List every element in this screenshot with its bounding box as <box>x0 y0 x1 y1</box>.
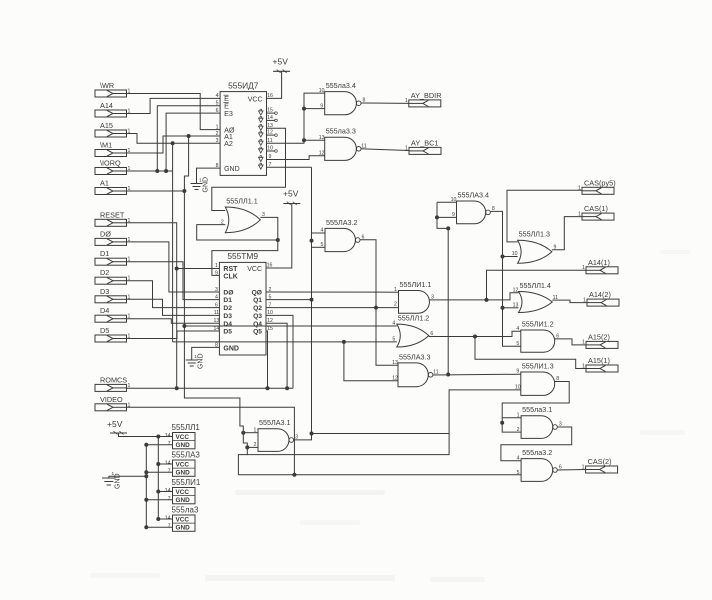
svg-text:VCC: VCC <box>176 434 190 441</box>
svg-text:555ЛА3.4: 555ЛА3.4 <box>458 190 490 199</box>
svg-text:555ла3.1: 555ла3.1 <box>522 405 552 414</box>
svg-text:555ТМ9: 555ТМ9 <box>227 251 258 261</box>
svg-text:GND: GND <box>224 166 240 173</box>
svg-text:GND: GND <box>203 177 210 193</box>
svg-text:D2: D2 <box>223 305 232 312</box>
svg-text:555ла3: 555ла3 <box>172 506 199 515</box>
svg-text:E3: E3 <box>224 109 233 118</box>
svg-text:D3: D3 <box>223 313 232 320</box>
svg-text:D2: D2 <box>100 268 109 277</box>
svg-text:555ла3.2: 555ла3.2 <box>522 448 552 457</box>
svg-text:D1: D1 <box>223 297 232 304</box>
svg-text:555ла3.4: 555ла3.4 <box>326 81 356 90</box>
svg-text:A14: A14 <box>100 101 113 110</box>
svg-text:A15: A15 <box>100 121 113 130</box>
svg-text:2: 2 <box>394 302 397 308</box>
svg-text:RST: RST <box>223 266 238 273</box>
svg-text:555ЛЛ1.3: 555ЛЛ1.3 <box>519 230 550 239</box>
svg-text:555ЛЛ1.2: 555ЛЛ1.2 <box>398 314 429 323</box>
svg-text:\M1: \M1 <box>100 141 112 150</box>
svg-text:+5V: +5V <box>107 419 123 429</box>
svg-text:VIDEO: VIDEO <box>100 395 123 404</box>
svg-text:D5: D5 <box>223 329 232 336</box>
svg-text:CAS(2): CAS(2) <box>588 457 612 466</box>
svg-text:AY_BDIR: AY_BDIR <box>411 91 442 100</box>
svg-text:\IORQ: \IORQ <box>100 159 121 168</box>
svg-text:A14(1): A14(1) <box>588 258 610 267</box>
svg-text:555ЛИ1.2: 555ЛИ1.2 <box>522 319 554 328</box>
svg-text:CAS(1): CAS(1) <box>584 204 608 213</box>
svg-text:DØ: DØ <box>100 229 111 238</box>
svg-text:D4: D4 <box>223 321 232 328</box>
svg-text:+5V: +5V <box>283 189 299 199</box>
svg-text:GND: GND <box>176 442 191 449</box>
svg-text:Q1: Q1 <box>253 297 262 304</box>
svg-text:GND: GND <box>176 470 191 477</box>
svg-text:AY_BC1: AY_BC1 <box>411 138 438 147</box>
svg-text:GND: GND <box>176 497 191 504</box>
svg-text:D4: D4 <box>100 306 109 315</box>
svg-text:Q5: Q5 <box>253 329 262 336</box>
svg-text:VCC: VCC <box>176 489 190 496</box>
svg-text:555ЛА3.3: 555ЛА3.3 <box>399 352 431 361</box>
svg-text:D1: D1 <box>100 249 109 258</box>
svg-text:A1: A1 <box>100 179 109 188</box>
svg-text:A2: A2 <box>224 139 233 148</box>
svg-text:\WR: \WR <box>100 81 114 90</box>
svg-text:A15(1): A15(1) <box>588 356 610 365</box>
svg-text:Q3: Q3 <box>253 313 262 320</box>
svg-text:+5V: +5V <box>273 57 289 67</box>
svg-text:D3: D3 <box>100 287 109 296</box>
svg-text:QØ: QØ <box>252 290 262 297</box>
svg-text:555ла3.3: 555ла3.3 <box>326 127 356 136</box>
svg-text:Q4: Q4 <box>253 321 262 328</box>
svg-text:555ЛИ1.1: 555ЛИ1.1 <box>400 280 432 289</box>
svg-text:VCC: VCC <box>176 462 190 469</box>
svg-text:555ЛЛ1: 555ЛЛ1 <box>172 423 201 432</box>
svg-text:A14(2): A14(2) <box>589 290 611 299</box>
svg-text:VCC: VCC <box>176 517 190 524</box>
svg-text:555ЛА3: 555ЛА3 <box>172 451 201 460</box>
svg-text:555ЛЛ1.1: 555ЛЛ1.1 <box>226 196 257 205</box>
svg-text:VCC: VCC <box>248 96 263 103</box>
svg-text:D5: D5 <box>100 326 109 335</box>
svg-text:555ЛИ1.3: 555ЛИ1.3 <box>522 361 554 370</box>
svg-text:A15(2): A15(2) <box>588 332 610 341</box>
svg-text:555ЛА3.1: 555ЛА3.1 <box>259 418 291 427</box>
svg-text:GND: GND <box>115 473 122 489</box>
svg-text:CAS(py5): CAS(py5) <box>584 178 616 187</box>
svg-text:555ЛИ1: 555ЛИ1 <box>172 478 201 487</box>
svg-text:555ЛЛ1.4: 555ЛЛ1.4 <box>520 281 551 290</box>
svg-text:GND: GND <box>176 525 191 532</box>
svg-text:VCC: VCC <box>247 266 262 273</box>
svg-text:Q2: Q2 <box>253 305 262 312</box>
svg-text:RESET: RESET <box>100 210 125 219</box>
svg-text:555ИД7: 555ИД7 <box>228 81 259 91</box>
svg-text:ROMCS: ROMCS <box>100 375 127 384</box>
svg-text:555ЛА3.2: 555ЛА3.2 <box>326 218 358 227</box>
svg-text:GND: GND <box>223 346 239 353</box>
svg-text:GND: GND <box>198 353 205 369</box>
svg-text:CLK: CLK <box>223 274 237 281</box>
svg-text:DØ: DØ <box>223 290 233 297</box>
